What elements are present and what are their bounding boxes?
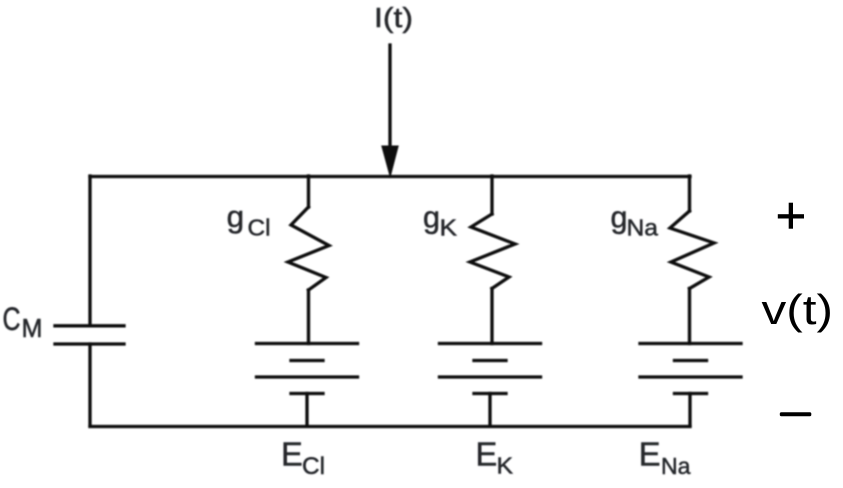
- svg-text:g: g: [611, 200, 628, 235]
- wire bottom rail: [90, 425, 690, 428]
- label EK: [476, 436, 514, 479]
- svg-text:E: E: [281, 436, 303, 473]
- resistor gNa zigzag: [670, 211, 714, 289]
- battery ENa: [640, 344, 741, 394]
- label gNa: [611, 200, 659, 241]
- wire ENa stem: [688, 394, 691, 427]
- wire left branch upper: [88, 176, 91, 324]
- svg-text:K: K: [440, 215, 458, 241]
- wire top rail: [90, 175, 690, 178]
- svg-text:g: g: [423, 200, 440, 235]
- minus sign: [780, 412, 812, 416]
- svg-text:C: C: [3, 301, 21, 337]
- svg-text:E: E: [476, 436, 498, 473]
- current source arrowhead: [381, 146, 399, 179]
- svg-text:Cl: Cl: [302, 453, 325, 480]
- svg-text:Na: Na: [661, 453, 691, 479]
- svg-text:K: K: [497, 453, 514, 479]
- label ECl: [281, 436, 325, 481]
- svg-text:M: M: [22, 315, 43, 343]
- wire gNa branch lower: [688, 289, 691, 344]
- capacitor CM plates: [55, 326, 124, 344]
- current source I(t) arrow shaft: [388, 45, 391, 152]
- battery ECl: [257, 344, 358, 394]
- wire gCl branch lower: [307, 290, 310, 344]
- label gCl: [227, 199, 271, 241]
- resistor gCl zigzag: [288, 207, 329, 290]
- wire EK stem: [488, 394, 491, 427]
- svg-text:v(t): v(t): [762, 286, 834, 333]
- label ENa: [639, 436, 691, 480]
- wire gCl branch upper: [307, 176, 310, 207]
- svg-text:Na: Na: [627, 215, 659, 241]
- battery EK: [440, 344, 541, 394]
- resistor gK zigzag: [470, 214, 515, 289]
- wire gK branch upper: [490, 176, 493, 214]
- label CM: [3, 301, 43, 343]
- svg-text:g: g: [227, 199, 245, 234]
- wire gK branch lower: [490, 289, 493, 344]
- label gK: [423, 200, 458, 241]
- wire gNa branch upper: [688, 176, 691, 211]
- wire ECl stem: [305, 394, 308, 427]
- plus sign: [778, 203, 804, 229]
- svg-text:I(t): I(t): [374, 2, 413, 33]
- wire left branch lower: [88, 344, 91, 426]
- svg-text:E: E: [639, 436, 661, 473]
- svg-text:Cl: Cl: [248, 215, 271, 241]
